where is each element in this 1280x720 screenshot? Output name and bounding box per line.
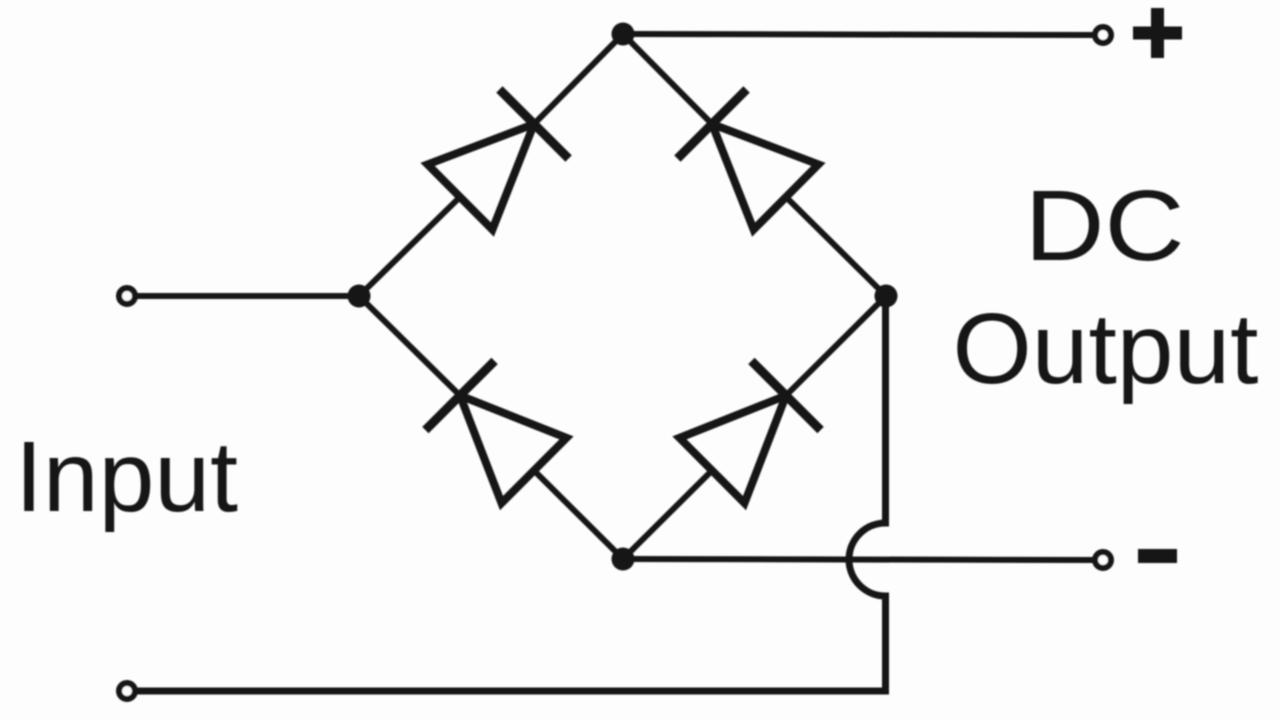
wire D1 cathode to top node: [534, 34, 623, 124]
wire bottom node to D3 anode: [534, 471, 623, 560]
svg-text:Output: Output: [953, 293, 1259, 405]
diode D3 (bottom node to left node): [425, 361, 566, 503]
wire bottom node to D4 anode: [623, 471, 712, 560]
wire bottom node to - terminal: [623, 559, 1094, 560]
wire top node to + terminal: [623, 34, 1094, 35]
label + polarity sign: [1133, 8, 1182, 58]
wire D3 cathode to left node: [359, 296, 460, 396]
terminal input lower (open circle): [119, 683, 135, 699]
svg-text:DC: DC: [1025, 170, 1185, 282]
diode D1 (lower-left to top, pointing to + node): [428, 89, 569, 229]
wire D4 cathode to right node: [786, 296, 886, 396]
node right (AC input junction dot): [875, 285, 898, 308]
terminal + output (open circle): [1095, 27, 1111, 43]
wire input terminal to left node: [135, 293, 359, 299]
node left (AC input junction dot): [348, 285, 371, 308]
terminal - output (open circle): [1095, 552, 1111, 568]
node bottom (- junction dot): [612, 548, 635, 571]
diode D4 (bottom node to right node): [680, 361, 821, 503]
wire D2 cathode to top node: [623, 34, 712, 124]
wire right node down with hop over to bottom return wire: [137, 296, 886, 691]
wire right node to D2 anode: [786, 197, 886, 296]
terminal input upper (open circle): [119, 288, 135, 304]
wire left node to D1 anode: [359, 197, 460, 296]
node top (+ junction dot): [612, 23, 635, 46]
diode D2 (lower-right to top, pointing to + node): [677, 89, 818, 229]
label - polarity sign: [1138, 549, 1177, 563]
svg-text:Input: Input: [15, 421, 238, 533]
